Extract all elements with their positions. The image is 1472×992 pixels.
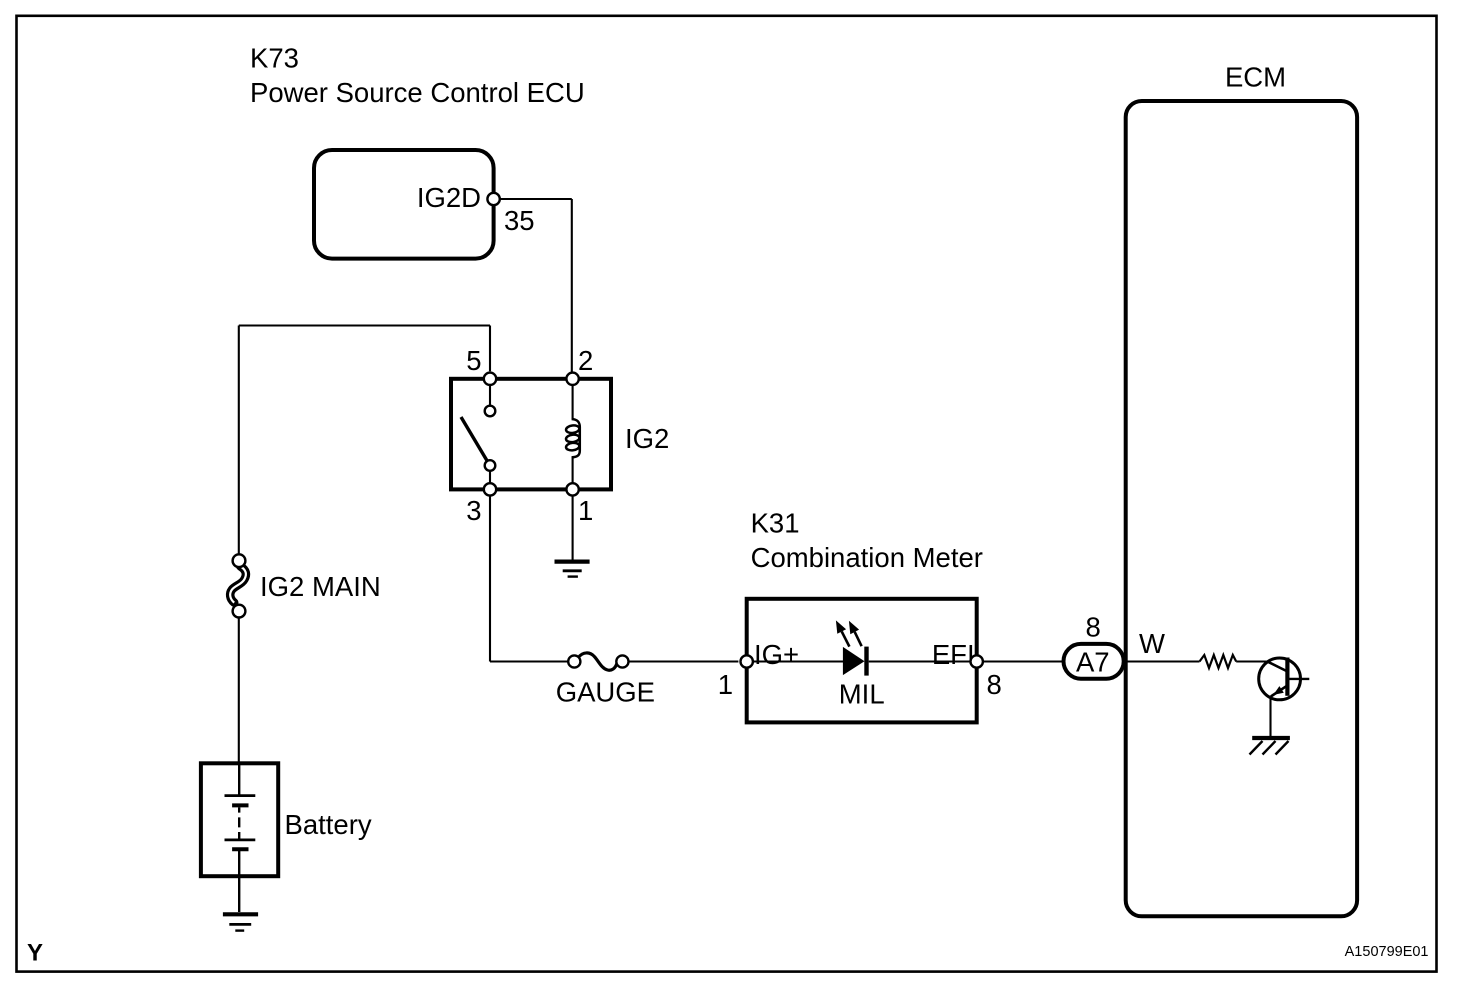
wire switch to pin 3: [489, 471, 491, 485]
fusible link terminal lower: [233, 605, 246, 618]
relay box IG2: [451, 379, 611, 490]
resistor: [1200, 655, 1237, 668]
svg-text:A150799E01: A150799E01: [1345, 944, 1429, 960]
svg-text:MIL: MIL: [839, 679, 885, 710]
battery internal wire bottom to ground: [238, 850, 240, 912]
relay pin 3: [484, 483, 496, 495]
svg-text:8: 8: [987, 669, 1002, 700]
svg-text:Y: Y: [27, 940, 43, 967]
wire transistor emitter down: [1269, 698, 1271, 738]
relay pin 2: [566, 373, 578, 385]
GAUGE fuse terminal right: [616, 655, 628, 667]
battery plate short lower: [232, 847, 248, 851]
svg-text:1: 1: [578, 495, 593, 526]
svg-text:8: 8: [1086, 612, 1101, 643]
relay coil: [566, 419, 580, 457]
svg-text:Combination Meter: Combination Meter: [751, 542, 983, 573]
MIL LED arrow 2: [849, 621, 862, 646]
combination meter box K31: [747, 599, 977, 723]
battery plate short upper: [232, 803, 248, 807]
GAUGE fuse terminal left: [568, 655, 580, 667]
MIL LED triangle: [843, 647, 865, 675]
svg-text:ECM: ECM: [1225, 62, 1286, 93]
connector A7 oval: [1064, 644, 1124, 679]
switch contact upper: [485, 406, 496, 417]
fusible link terminal upper: [233, 554, 246, 567]
meter pin 1: [741, 655, 753, 667]
wire pin1 to ground: [572, 496, 574, 561]
wire horizontal to left branch: [239, 324, 490, 326]
meter pin 8: [971, 655, 983, 667]
battery internal wire top: [238, 765, 240, 795]
pin 35 terminal: [487, 193, 499, 205]
wire pin2 to coil: [572, 384, 574, 419]
ground ECM (chassis): [1250, 738, 1290, 755]
battery box: [201, 763, 278, 876]
svg-text:1: 1: [718, 669, 733, 700]
battery plate long upper: [225, 794, 256, 797]
meter internal wire right: [869, 660, 972, 662]
wire coil to pin 1: [572, 457, 574, 485]
svg-text:IG2D: IG2D: [417, 182, 481, 213]
svg-text:35: 35: [504, 205, 535, 236]
battery plate long lower: [225, 839, 256, 842]
wire relay pin3 down: [489, 496, 491, 662]
relay pin 1: [566, 483, 578, 495]
relay pin 5: [484, 373, 496, 385]
transistor Q (ECM output): [1259, 658, 1310, 700]
svg-text:5: 5: [466, 345, 481, 376]
ECU box K73 (IG2D block): [314, 150, 494, 259]
switch contact lower: [485, 460, 496, 471]
svg-text:2: 2: [578, 345, 593, 376]
svg-text:K31: K31: [751, 508, 800, 539]
svg-text:EFI: EFI: [932, 639, 975, 670]
svg-text:IG+: IG+: [754, 639, 799, 670]
MIL LED arrow 1: [836, 620, 850, 646]
battery dashed center link: [238, 807, 240, 839]
wire meter pin8 to connector A7: [983, 660, 1062, 662]
MIL LED cathode bar: [864, 647, 868, 676]
wire ECM border to resistor: [1127, 660, 1200, 662]
GAUGE fuse wave: [578, 653, 617, 670]
wire left branch down to fusible link: [238, 326, 240, 555]
svg-text:GAUGE: GAUGE: [556, 677, 655, 708]
wire down to relay pin 2: [571, 199, 573, 372]
wire IG2D pin to corner: [500, 198, 572, 200]
svg-text:IG2 MAIN: IG2 MAIN: [260, 571, 381, 602]
wire pin5 to switch contact: [489, 384, 491, 406]
svg-text:W: W: [1139, 628, 1165, 659]
wire to GAUGE fuse: [490, 660, 568, 662]
svg-text:K73: K73: [250, 43, 299, 74]
switch blade: [461, 417, 488, 462]
svg-text:IG2: IG2: [625, 423, 669, 454]
svg-text:A7: A7: [1076, 646, 1110, 677]
wire relay pin 5 up: [489, 326, 491, 372]
ECM box: [1126, 101, 1357, 916]
svg-text:3: 3: [466, 495, 481, 526]
meter internal wire left: [748, 660, 844, 662]
fusible link IG2 MAIN squiggle: [230, 566, 246, 602]
ground battery: [223, 914, 258, 930]
wire fusible link to battery: [238, 618, 240, 762]
wire resistor to transistor: [1236, 660, 1268, 662]
ground relay coil: [555, 562, 590, 577]
svg-text:Power Source Control ECU: Power Source Control ECU: [250, 77, 585, 108]
wire GAUGE fuse to meter: [629, 660, 739, 662]
svg-text:Battery: Battery: [285, 809, 372, 840]
